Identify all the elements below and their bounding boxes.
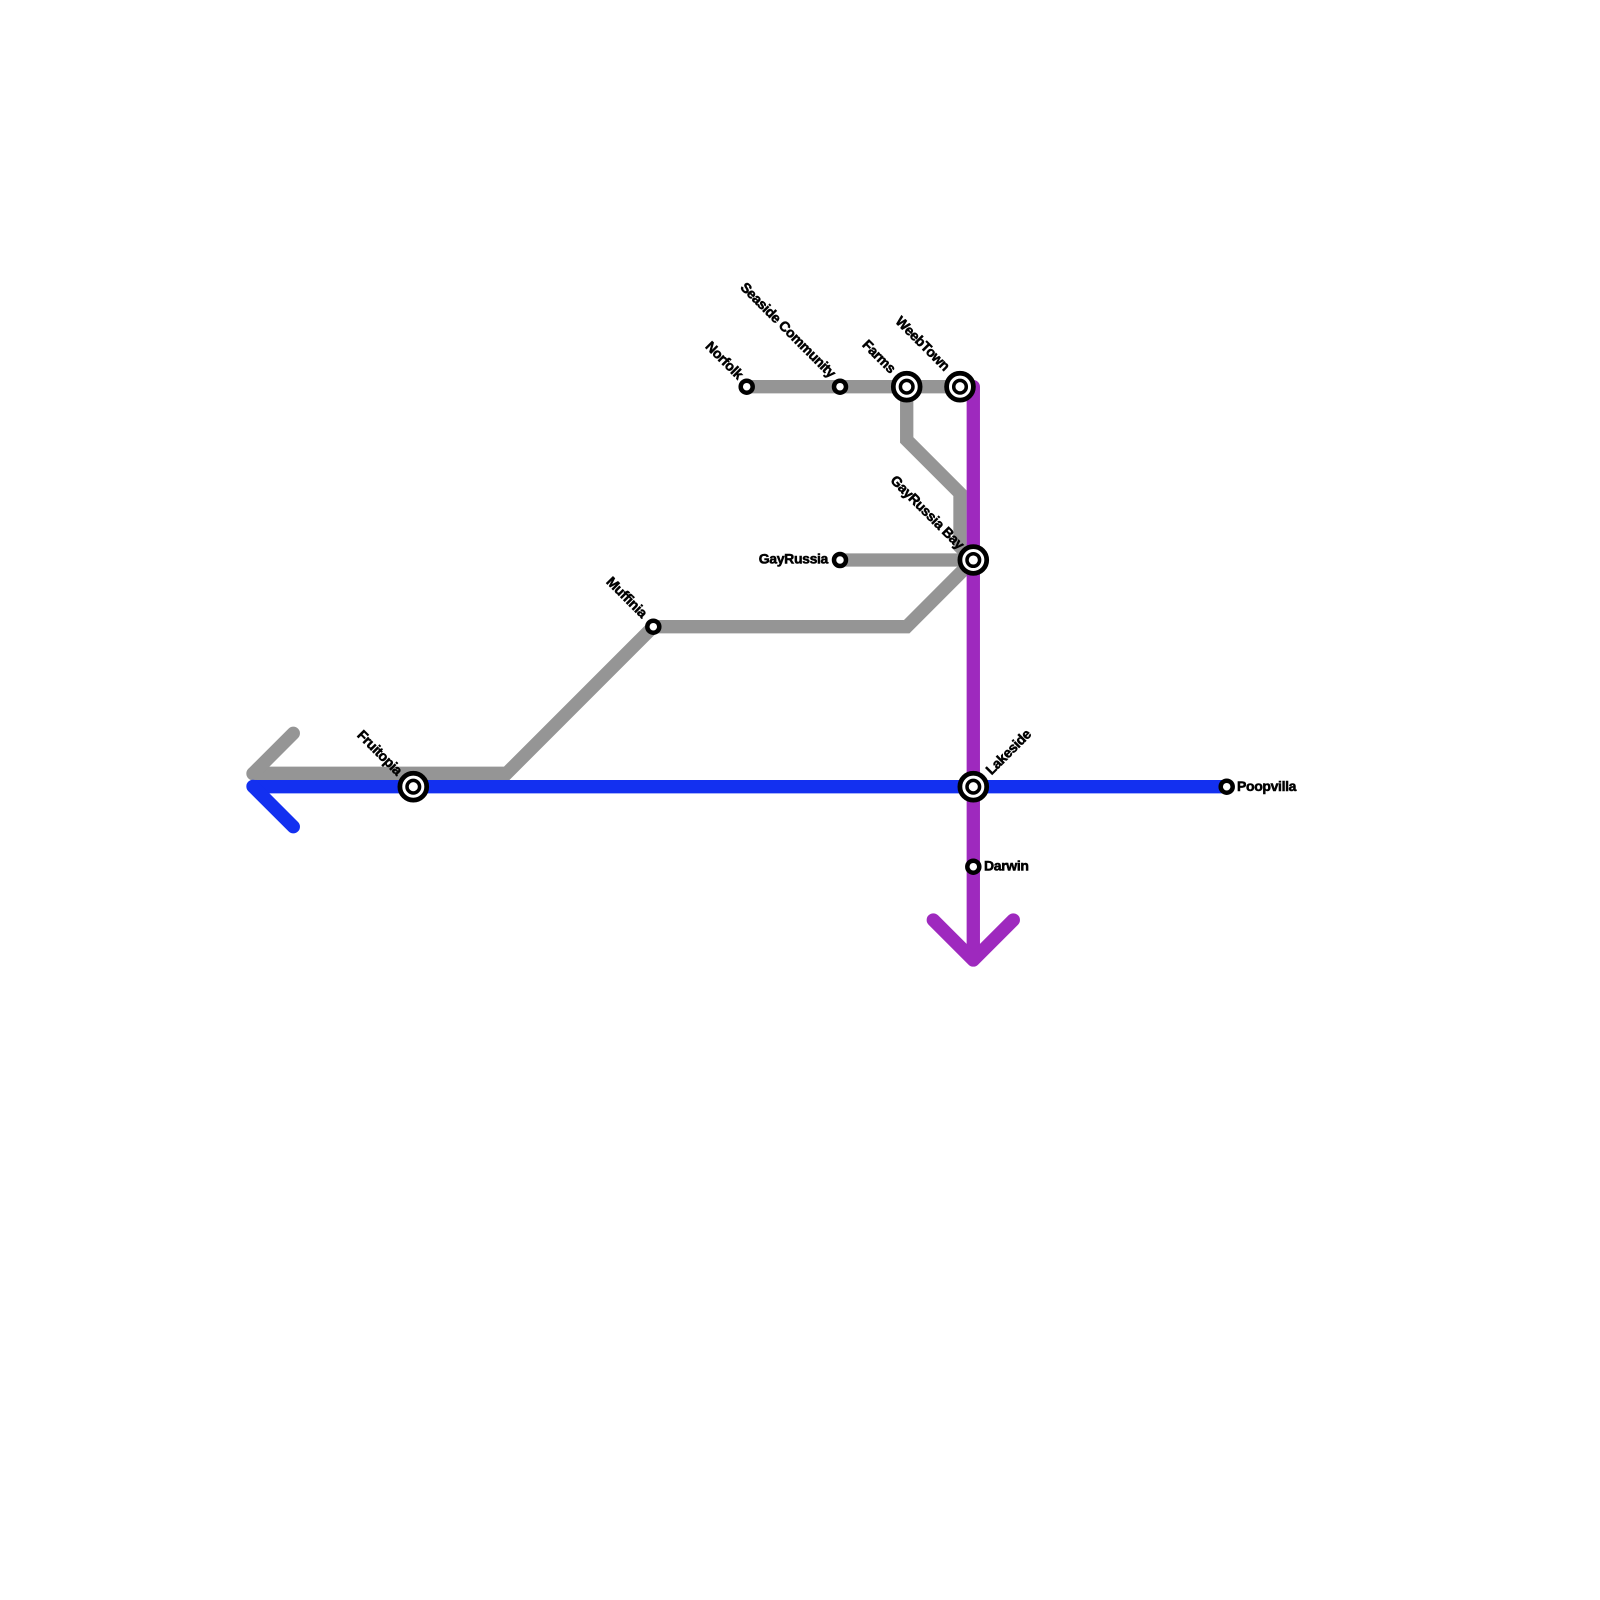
station Norfolk	[741, 381, 753, 393]
interchange GayRussia Bay	[960, 547, 987, 574]
gray line: GayRussia - GayRussia Bay	[840, 553, 973, 566]
interchange Lakeside	[960, 773, 987, 800]
interchange Farms	[893, 373, 920, 400]
station Poopvilla	[1221, 781, 1233, 793]
interchange Fruitopia	[400, 773, 427, 800]
station GayRussia	[834, 554, 846, 566]
gray line: GayRussia Bay - Muffinia - west end	[253, 560, 973, 773]
blue line: west arrow - Fruitopia - Lakeside - Poopvilla	[253, 780, 1226, 793]
purple line: WeebTown - Darwin - south arrow	[967, 387, 980, 963]
gray line: Norfolk - WeebTown	[747, 380, 960, 393]
purple arrow chevron	[933, 920, 1013, 960]
station Seaside Community	[834, 381, 846, 393]
svg-text:Darwin: Darwin	[984, 858, 1029, 874]
gray arrow arm (upper half of west double arrow)	[253, 733, 293, 773]
station Muffinia	[647, 621, 659, 633]
purple line rounded start cap at WeebTown	[967, 380, 980, 393]
interchange WeebTown	[947, 373, 974, 400]
blue arrow arm (lower half of west double arrow)	[253, 786, 293, 826]
svg-text:GayRussia: GayRussia	[759, 551, 829, 567]
station Darwin	[967, 861, 979, 873]
gray line: Farms - GayRussia Bay	[907, 387, 974, 560]
svg-text:Poopvilla: Poopvilla	[1237, 778, 1297, 794]
